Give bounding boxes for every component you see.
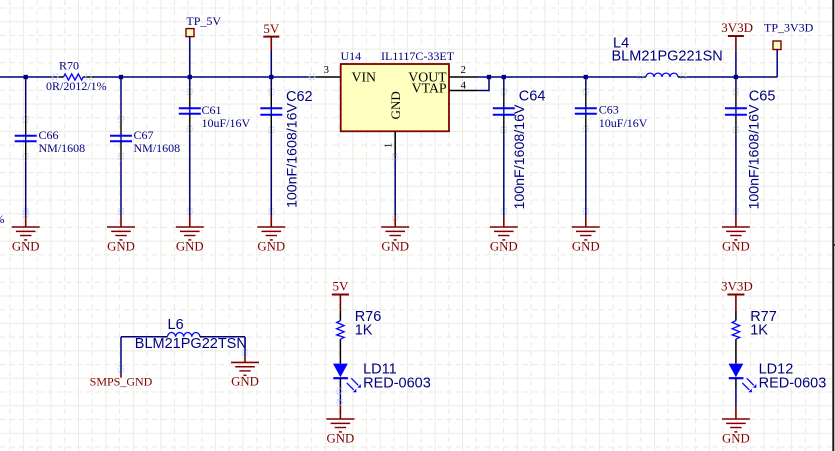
LED LD11	[333, 361, 431, 392]
capacitor C66	[15, 79, 37, 215]
ground GND C63	[585, 215, 587, 227]
svg-text:SMPS_GND: SMPS_GND	[90, 374, 153, 388]
svg-text:IL1117C-33ET: IL1117C-33ET	[381, 49, 455, 63]
svg-text:GND: GND	[722, 432, 750, 446]
ground GND C62	[270, 215, 272, 227]
capacitor C64	[493, 79, 515, 215]
svg-text:C64: C64	[519, 89, 546, 105]
power 5V top	[263, 21, 280, 77]
wire VOUT rail	[477, 76, 643, 78]
svg-text:RED-0603: RED-0603	[363, 376, 431, 392]
ground GND U14	[394, 215, 396, 227]
wire SMPS_GND	[120, 337, 122, 374]
svg-text:C67: C67	[134, 128, 154, 142]
junction 3V3D	[734, 75, 738, 79]
ground GND C66	[25, 215, 27, 227]
svg-text:BLM21PG221SN: BLM21PG221SN	[612, 49, 723, 65]
svg-text:3V3D: 3V3D	[721, 20, 753, 35]
junction C64	[502, 75, 506, 79]
svg-text:VTAP: VTAP	[412, 81, 447, 96]
svg-text:GND: GND	[257, 240, 285, 254]
svg-text:4: 4	[461, 79, 467, 91]
svg-text:GND: GND	[327, 432, 355, 446]
resistor R76	[337, 309, 382, 339]
svg-text:1K: 1K	[750, 323, 768, 339]
pin 1 GND	[394, 132, 396, 159]
ground GND LD12	[735, 406, 737, 420]
svg-text:GND: GND	[722, 240, 750, 254]
wire U14 gnd	[394, 158, 396, 215]
svg-text:3V3D: 3V3D	[721, 278, 753, 293]
svg-text:5V: 5V	[263, 21, 280, 36]
svg-text:NM/1608: NM/1608	[39, 141, 86, 155]
svg-text:C63: C63	[599, 103, 619, 117]
power 3V3D LED	[721, 278, 753, 310]
wire 5V rail left	[0, 76, 58, 78]
op-amp U14 body	[341, 49, 455, 131]
junction VTAP	[487, 75, 491, 79]
junction C63	[584, 75, 588, 79]
resistor R77	[732, 309, 777, 339]
svg-text:GND: GND	[176, 240, 204, 254]
wire VTAP to VOUT	[477, 90, 489, 92]
svg-text:1K: 1K	[355, 323, 373, 339]
svg-text:10uF/16V: 10uF/16V	[599, 116, 648, 130]
svg-text:3: 3	[324, 64, 330, 76]
svg-text:L6: L6	[168, 317, 184, 333]
svg-text:GND: GND	[231, 374, 259, 388]
svg-text:2: 2	[461, 64, 467, 76]
junction C67	[119, 75, 123, 79]
svg-text:U14: U14	[341, 49, 362, 63]
svg-text:10uF/16V: 10uF/16V	[202, 116, 251, 130]
ground GND C65	[735, 215, 737, 227]
wire rail to 3V3D	[683, 76, 777, 78]
svg-text:100nF/1608/16V: 100nF/1608/16V	[747, 104, 763, 209]
ground GND C61	[189, 215, 191, 227]
wire LD12 to GND	[735, 378, 737, 387]
LED LD12	[729, 361, 827, 392]
svg-text:GND: GND	[388, 91, 403, 119]
wire LD11 to GND	[339, 378, 341, 387]
inductor L6	[121, 317, 247, 352]
svg-text:NM/1608: NM/1608	[134, 141, 181, 155]
svg-text:0R/2012/1%: 0R/2012/1%	[46, 79, 107, 93]
ground GND C67	[120, 215, 122, 227]
junction TP_5V/C61	[188, 75, 192, 79]
svg-text:5V: 5V	[332, 278, 349, 293]
pin 4 VTAP	[449, 90, 477, 92]
svg-text:GND: GND	[107, 240, 135, 254]
svg-text:GND: GND	[572, 240, 600, 254]
svg-text:BLM21PG22TSN: BLM21PG22TSN	[135, 336, 247, 352]
svg-text:TP_5V: TP_5V	[186, 14, 221, 28]
capacitor C67	[110, 79, 132, 215]
svg-text:100nF/1608/16V: 100nF/1608/16V	[512, 104, 528, 209]
wire R77 to LD12	[735, 339, 737, 363]
junction 5V/C62	[269, 75, 273, 79]
capacitor C61	[179, 79, 201, 215]
junction C66	[24, 75, 28, 79]
svg-text:RED-0603: RED-0603	[759, 376, 827, 392]
wire R76 to LD11	[339, 339, 341, 363]
capacitor C63	[575, 79, 597, 215]
wire 5V rail mid	[94, 76, 313, 78]
svg-text:VIN: VIN	[352, 69, 377, 84]
power 5V LED	[332, 278, 349, 310]
sheet border right	[832, 0, 834, 451]
svg-text:R70: R70	[59, 58, 79, 72]
ground GND L6	[244, 357, 246, 363]
svg-text:1%: 1%	[0, 212, 5, 226]
svg-text:C62: C62	[286, 89, 313, 105]
pale mask marks	[23, 74, 686, 406]
capacitor C65	[725, 79, 747, 215]
svg-text:1: 1	[383, 143, 395, 149]
capacitor C62	[260, 79, 282, 215]
ground GND LD11	[339, 406, 341, 420]
testpoint TP_5V	[186, 14, 221, 77]
svg-text:100nF/1608/16V: 100nF/1608/16V	[285, 103, 301, 208]
wire L6 to GND	[244, 337, 246, 357]
testpoint TP_3V3D	[764, 21, 814, 77]
pin 3 VIN	[313, 76, 341, 78]
inductor L4	[612, 35, 723, 77]
svg-text:GND: GND	[490, 240, 518, 254]
svg-text:GND: GND	[381, 240, 409, 254]
svg-text:GND: GND	[12, 240, 40, 254]
ground GND C64	[503, 215, 505, 227]
power 3V3D top	[721, 20, 753, 77]
svg-text:TP_3V3D: TP_3V3D	[764, 21, 814, 35]
power SMPS_GND	[120, 373, 122, 377]
pin 2 VOUT	[449, 76, 477, 78]
resistor R70	[46, 58, 107, 93]
svg-text:C65: C65	[749, 89, 776, 105]
svg-text:C66: C66	[39, 128, 59, 142]
